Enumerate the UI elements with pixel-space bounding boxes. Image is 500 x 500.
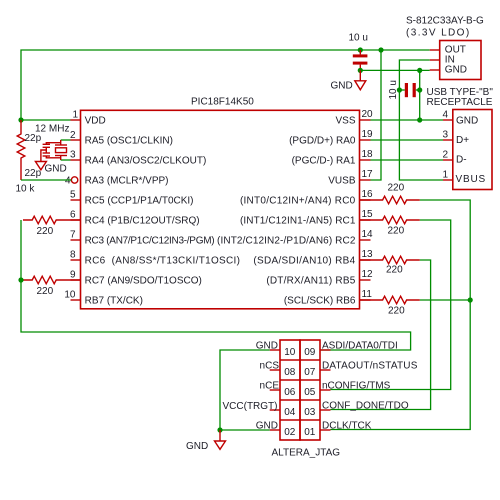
svg-text:nCS: nCS [260, 360, 280, 371]
svg-text:DATAOUT/nSTATUS: DATAOUT/nSTATUS [322, 360, 418, 371]
pin U1 5 RC5 [71, 199, 81, 201]
crystal circuit: wire stubs pin2/pin3 [61, 139, 71, 141]
svg-text:5: 5 [70, 190, 76, 201]
svg-text:RB7 (TX/CK): RB7 (TX/CK) [85, 295, 143, 306]
pin J2 05 TMS stub [320, 389, 331, 391]
svg-text:VBUS: VBUS [456, 174, 486, 185]
svg-text:nCE: nCE [260, 380, 280, 391]
svg-text:D+: D+ [456, 135, 469, 146]
junction node rail/C-10u [358, 47, 363, 52]
pin J1 4 GND [443, 119, 453, 121]
svg-text:10 u: 10 u [388, 80, 399, 99]
svg-text:GND: GND [45, 164, 67, 175]
capacitor C1 10u (polarized, vertical) [353, 50, 368, 70]
svg-text:06: 06 [284, 387, 296, 398]
wire net VBUS: LDO IN down to USB pin 1 [399, 60, 443, 180]
svg-text:RA3 (MCLR*/VPP): RA3 (MCLR*/VPP) [85, 175, 169, 186]
svg-text:3: 3 [70, 150, 76, 161]
resistor R6 220 (pin 13) [360, 256, 420, 264]
svg-text:220: 220 [388, 183, 405, 194]
connector J2 ALTERA_JTAG left column box [280, 340, 300, 440]
svg-text:RC6 (AN8/SS*/T13CKI/T1OSCI): RC6 (AN8/SS*/T13CKI/T1OSCI) [85, 255, 241, 266]
pin U1 6 RC4 [71, 219, 81, 221]
pin U1 2 RA5 [71, 139, 81, 141]
wire net VSS to USB GND [371, 119, 444, 121]
svg-text:10: 10 [284, 347, 296, 358]
pin U1 13 RB4 [360, 259, 371, 261]
svg-text:7: 7 [70, 230, 76, 241]
svg-text:(PGC/D-) RA1: (PGC/D-) RA1 [292, 155, 356, 166]
svg-text:VCC(TRGT): VCC(TRGT) [223, 401, 278, 412]
svg-text:1: 1 [72, 110, 78, 121]
svg-text:14: 14 [362, 229, 374, 240]
svg-text:17: 17 [362, 169, 374, 180]
pin U1 7 RC3 [71, 239, 81, 241]
wire GND vertical through C2 right to USB GND line [419, 70, 421, 120]
wire net +3V3 branch down to VUSB pin 17 [371, 50, 382, 180]
pin U2 GND [430, 69, 440, 71]
junction node VDD/10k [18, 117, 23, 122]
wire net MCLR from 10k to pin 4 [21, 179, 71, 181]
svg-text:10 k: 10 k [16, 184, 36, 195]
svg-text:(3.3V LDO): (3.3V LDO) [406, 28, 471, 39]
svg-text:9: 9 [70, 270, 76, 281]
svg-text:03: 03 [304, 407, 316, 418]
svg-text:08: 08 [284, 367, 296, 378]
svg-text:(INT1/C12IN1-/AN5) RC1: (INT1/C12IN1-/AN5) RC1 [240, 215, 356, 226]
svg-text:VDD: VDD [85, 115, 106, 126]
wire net TMS: pin15 resistor to JTAG nCONFIG/TMS [331, 220, 451, 390]
svg-text:GND: GND [445, 65, 467, 76]
connector J1 USB TYPE-"B" RECEPTACLE box [453, 110, 492, 190]
svg-text:PIC18F14K50: PIC18F14K50 [191, 97, 254, 108]
pin U2 OUT [430, 49, 440, 51]
J2 cell dividers [280, 360, 320, 420]
pin U1 9 RC7 [71, 279, 81, 281]
resistor R5 220 (pin 15) [360, 216, 420, 224]
ground symbol top GND [355, 70, 366, 89]
pin J2 03 TDO stub [320, 409, 331, 411]
svg-text:RA5 (OSC1/CLKIN): RA5 (OSC1/CLKIN) [85, 135, 173, 146]
svg-text:2: 2 [70, 130, 76, 141]
pin U1 12 RB5 [360, 279, 371, 281]
svg-text:S-812C33AY-B-G: S-812C33AY-B-G [406, 16, 484, 27]
svg-text:220: 220 [37, 226, 54, 237]
svg-text:nCONFIG/TMS: nCONFIG/TMS [322, 380, 391, 391]
wire net TDO: pin13 resistor to JTAG CONF_DONE/TDO [331, 260, 431, 410]
resistor R1 10k pull-up (vertical) [17, 120, 25, 180]
svg-text:07: 07 [304, 367, 316, 378]
junction node C1 bottom / GND net [358, 68, 363, 73]
svg-text:12: 12 [362, 269, 374, 280]
junction node TCK/RB6 [468, 297, 473, 302]
svg-text:13: 13 [362, 249, 374, 260]
pin J2 06 nCE stub [270, 389, 280, 391]
svg-text:22p: 22p [25, 168, 42, 179]
svg-text:4: 4 [65, 175, 71, 186]
svg-text:RC3 (AN7/P1C/C12IN3-/PGM): RC3 (AN7/P1C/C12IN3-/PGM) [85, 235, 215, 246]
svg-text:220: 220 [386, 265, 403, 276]
junction node VBUS / C2 left [397, 87, 402, 92]
svg-text:220: 220 [388, 226, 405, 237]
pin J1 1 VBUS [443, 179, 453, 181]
pin U1 10 RB7 [71, 299, 81, 301]
voltage regulator U2 S-812C33AY-B-G box [440, 41, 481, 80]
junction node GND/symbol [217, 427, 222, 432]
junction node C2 right [417, 87, 422, 92]
svg-text:16: 16 [362, 189, 374, 200]
resistor R3 220 (pin 9) [23, 276, 81, 284]
svg-text:19: 19 [362, 129, 374, 140]
svg-text:01: 01 [304, 427, 316, 438]
wire net TCK: pin16 resistor right, down to JTAG DCLK/TCK [331, 200, 471, 430]
pin J2 09 TDI stub [320, 349, 331, 351]
pin U1 20 VSS [360, 119, 371, 121]
junction node GND vertical / VSS line [417, 117, 422, 122]
svg-text:20: 20 [362, 109, 374, 120]
svg-text:8: 8 [70, 250, 76, 261]
svg-text:15: 15 [362, 209, 374, 220]
connector J2 right column box [300, 340, 320, 440]
svg-text:10 u: 10 u [349, 32, 368, 43]
svg-text:4: 4 [442, 110, 448, 121]
pin J2 04 VCC(TRGT) stub [270, 409, 280, 411]
pin J1 2 D- [443, 159, 453, 161]
resistor R4 220 (pin 16) [360, 196, 420, 204]
capacitor C2 10u (polarized, horizontal) [399, 83, 419, 97]
svg-text:09: 09 [304, 347, 316, 358]
svg-text:ASDI/DATA0/TDI: ASDI/DATA0/TDI [322, 340, 398, 351]
pin U1 1 VDD [71, 119, 81, 121]
svg-text:1: 1 [442, 170, 448, 181]
svg-text:(DT/RX/AN11) RB5: (DT/RX/AN11) RB5 [266, 275, 355, 286]
pin J2 07 nSTATUS stub [320, 369, 331, 371]
pin J2 08 nCS stub [270, 369, 280, 371]
resistor R2 220 (pin 6) [23, 216, 81, 224]
svg-text:02: 02 [284, 427, 296, 438]
svg-text:(PGD/D+) RA0: (PGD/D+) RA0 [289, 135, 356, 146]
svg-text:RC4 (P1B/C12OUT/SRQ): RC4 (P1B/C12OUT/SRQ) [85, 215, 200, 226]
svg-text:DCLK/TCK: DCLK/TCK [322, 420, 372, 431]
svg-text:VUSB: VUSB [328, 175, 356, 186]
wire net D+ (pin 19 to USB 3) [371, 139, 444, 141]
svg-text:GND: GND [331, 81, 353, 92]
svg-text:D-: D- [456, 154, 467, 165]
junction node rail/pin9 resistor [18, 277, 23, 282]
pin U1 17 VUSB [360, 179, 371, 181]
svg-text:04: 04 [284, 407, 296, 418]
pin U1 3 RA4 [71, 159, 81, 161]
svg-text:GND: GND [456, 116, 478, 127]
svg-text:(SCL/SCK) RB6: (SCL/SCK) RB6 [284, 295, 356, 306]
svg-text:220: 220 [37, 286, 54, 297]
svg-text:(SDA/SDI/AN10) RB4: (SDA/SDI/AN10) RB4 [253, 255, 355, 266]
svg-text:RC5 (CCP1/P1A/T0CKI): RC5 (CCP1/P1A/T0CKI) [85, 195, 194, 206]
svg-text:RECEPTACLE: RECEPTACLE [427, 97, 493, 108]
pin U1 11 RB6 [360, 299, 371, 301]
svg-text:VSS: VSS [335, 115, 355, 126]
wire net GND: JTAG pin10 around to pin 02 [220, 350, 270, 430]
svg-text:RA4 (AN3/OSC2/CLKOUT): RA4 (AN3/OSC2/CLKOUT) [85, 155, 207, 166]
svg-text:ALTERA_JTAG: ALTERA_JTAG [272, 448, 341, 459]
pin J2 10 GND stub [270, 349, 280, 351]
svg-text:11: 11 [362, 289, 373, 300]
pin U1 14 RC2 [360, 239, 371, 241]
pin U2 IN [430, 59, 440, 61]
svg-text:(INT2/C12IN2-/P1D/AN6) RC2: (INT2/C12IN2-/P1D/AN6) RC2 [217, 235, 356, 246]
pin U1 8 RC6 [71, 259, 81, 261]
pin U1 19 RA0 [360, 139, 371, 141]
wire net TDI: rail from pin6/pin9 resistors down around to JTAG TDI [21, 220, 411, 350]
pin U1 18 RA1 [360, 159, 371, 161]
pin J1 3 D+ [443, 139, 453, 141]
capacitor C3 22p (top) [43, 143, 61, 150]
svg-text:18: 18 [362, 149, 374, 160]
junction node rail/VUSB branch [378, 47, 383, 52]
junction node GND net / USB-gnd vertical [417, 68, 422, 73]
pin J2 01 TCK stub [320, 429, 331, 431]
wire GND net to LDO GND pin [360, 69, 429, 71]
svg-text:6: 6 [70, 210, 76, 221]
svg-text:CONF_DONE/TDO: CONF_DONE/TDO [322, 400, 409, 411]
pin U1 15 RC1 [360, 219, 371, 221]
resistor R7 220 (pin 11) [360, 296, 420, 304]
wire net D- (pin 18 to USB 2) [371, 159, 444, 161]
wire net +3V3 rail from LDO OUT to left side and down to VDD pin 1 [21, 50, 430, 120]
svg-text:3: 3 [442, 130, 448, 141]
ground symbol bottom GND [215, 430, 226, 449]
IC U1 PIC18F14K50 box [81, 110, 360, 308]
pin U1 16 RC0 [360, 199, 371, 201]
svg-text:2: 2 [442, 150, 448, 161]
capacitor C4 22p (bottom) [43, 150, 61, 158]
pin J2 02 GND stub [270, 429, 280, 431]
wire net RB6 to TCK junction [420, 299, 470, 301]
svg-text:RC7 (AN9/SDO/T1OSCO): RC7 (AN9/SDO/T1OSCO) [85, 275, 202, 286]
svg-text:220: 220 [388, 306, 405, 317]
svg-text:22p: 22p [25, 133, 42, 144]
svg-text:05: 05 [304, 387, 316, 398]
pin U1 4 RA3 (with dot bubble) [70, 179, 73, 181]
svg-text:GND: GND [186, 441, 208, 452]
crystal Q1 12 MHz (vertical) [55, 140, 67, 160]
ground symbol crystal GND [35, 150, 46, 170]
svg-text:(INT0/C12IN+/AN4) RC0: (INT0/C12IN+/AN4) RC0 [240, 195, 356, 206]
svg-text:10: 10 [64, 290, 76, 301]
